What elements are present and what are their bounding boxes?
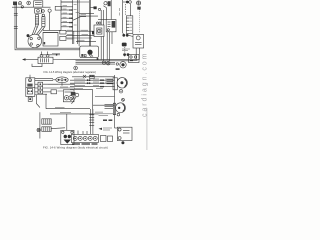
dimmer switch cluster [71,92,79,104]
wire battery right [53,59,76,61]
junction mark X [83,75,86,78]
fuse block label bar [72,143,98,145]
label dashes [67,30,88,39]
lighting relay box right [129,54,140,62]
connector top center bottom-diagram [90,75,95,78]
ignition coil connector [35,8,42,13]
wire ladder vertical [39,112,41,138]
resistor ladder box 2 [42,127,51,132]
ignition coil bars [35,14,45,26]
fuse block array [72,131,99,143]
labels mid right rows [76,12,86,14]
voltage regulator box [133,35,144,49]
ignition switch [103,1,110,7]
svg-text:FIG. 14-6 Wiring diagram (b: FIG. 14-6 Wiring diagram (body electrica… [43,146,108,150]
wire rows mid right [79,14,98,17]
label body ground [99,114,114,116]
ground strap under battery [32,64,42,67]
svg-text:FIG. 14-5 Wiring diagram (alt: FIG. 14-5 Wiring diagram (alternator reg… [44,70,97,74]
ground symbol circled X [37,128,40,131]
stub to tail connector [123,1,127,3]
fuel sender box [51,90,57,94]
wire harness double vertical [77,0,79,46]
harness bundle vertical [89,109,94,134]
engine junction box [43,33,58,47]
junction boxes right of fuse block [101,136,113,142]
wire left drop [36,95,40,108]
ammeter connector block [90,6,96,9]
bus labels [74,5,77,26]
junction block left [60,30,66,40]
starter solenoid box [106,20,116,32]
connector circles rail end [102,61,110,65]
wire vertical from top rail [49,12,51,30]
instrument gauge oval [53,77,69,83]
distributor [27,34,42,48]
connector pair C [122,33,133,37]
fuse ladder rows center [61,2,73,27]
label rows M [74,79,112,89]
label text E [122,49,130,50]
wire ammeter double vertical [89,0,90,46]
vertical label marks [119,8,121,16]
spark plug wires [32,25,45,35]
connector column [38,82,43,94]
wire mid horizontal [95,96,115,98]
parking lamp top [27,1,31,5]
headlamp connector top-left [13,2,22,6]
wire long horizontals [76,60,140,65]
wire right vertical [122,0,124,33]
license lamp box bottom right [115,127,133,144]
wire top horizontal [12,6,51,8]
wire license row [46,94,99,114]
wires flasher fanout [35,80,53,94]
wire battery link [41,54,61,56]
page edge line [146,108,148,150]
connector dots H [97,58,99,60]
wires center rows [66,31,94,44]
flasher relay box bottom-left [26,75,35,97]
wire dashed [124,4,126,16]
connector pair G [123,53,129,56]
wire flasher top link [35,77,53,79]
spark plug terminal circle [42,10,45,13]
wire bus 2 [72,0,74,44]
turn flasher box [61,130,74,144]
connector ticks on left harness [14,14,18,29]
fuse strip [126,16,132,34]
grommet below flasher [28,97,32,101]
tail lamp lower [105,98,126,115]
dark cable marks [103,119,112,121]
tank unit box with circles [63,90,74,102]
wire battery to ground arrow [22,58,38,60]
label J [48,84,68,87]
terminal circle on top wire [21,6,23,8]
wire drop to turn flasher [66,114,68,130]
connector dots on ladder [69,9,72,27]
starter relay box [92,25,104,37]
lighting switch box [55,6,61,10]
label L [55,107,103,112]
wires bottom left rows [43,84,75,92]
ground arrow label [99,128,113,130]
wire regulator drops [136,48,139,60]
horn [116,62,127,70]
resistor ladder box 1 [42,119,51,124]
wire ladder to flasher [51,127,65,130]
dome lamp [137,1,141,10]
connector tail lamp top [126,1,131,4]
rail terminal circle [74,66,78,70]
connector dots rows [87,79,104,87]
horn relay box top [34,1,43,7]
resistor terminal circle [48,9,51,12]
wire dotted [139,10,141,34]
wire rows bottom center [70,77,115,90]
svg-text:cardiagn.com: cardiagn.com [141,52,148,117]
battery [38,52,53,64]
wire dashed F [124,47,126,57]
connector dark D [122,43,127,47]
wire stop lamp [76,40,96,42]
connector pair small [97,22,102,24]
wire left harness enclosure double [15,3,80,50]
wire oval drop [61,83,63,86]
slant wire to switch [73,17,86,21]
wire verticals right center [98,0,112,61]
wire main left bus [60,0,62,31]
stop switch label [77,39,85,41]
tail lamp upper [107,78,128,93]
alternator box [80,46,99,58]
wire short vertical [130,4,132,16]
wire top row to ammeter [61,1,89,3]
label K [58,90,64,92]
label I [52,52,60,54]
fuse terminal circle [98,8,100,10]
wire vertical center [93,75,115,128]
wire above junction box [43,29,61,31]
ladder wire labels [63,5,68,25]
coil labels [37,26,44,30]
